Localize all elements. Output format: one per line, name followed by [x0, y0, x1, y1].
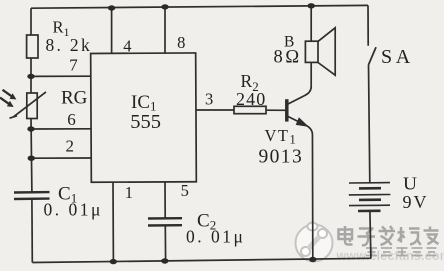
- svg-text:7: 7: [69, 55, 78, 74]
- svg-text:U: U: [403, 174, 417, 194]
- svg-text:0. 01μ: 0. 01μ: [186, 227, 245, 247]
- svg-text:8. 2k: 8. 2k: [46, 35, 93, 55]
- svg-text:0. 01μ: 0. 01μ: [44, 200, 103, 220]
- svg-text:5: 5: [181, 181, 189, 200]
- svg-text:6: 6: [67, 110, 76, 129]
- svg-text:2: 2: [66, 136, 75, 155]
- svg-text:8Ω: 8Ω: [274, 48, 302, 68]
- svg-text:9013: 9013: [259, 146, 304, 167]
- svg-text:1: 1: [125, 183, 133, 202]
- svg-text:RG: RG: [61, 88, 88, 109]
- svg-text:555: 555: [130, 111, 161, 133]
- svg-text:3: 3: [205, 90, 213, 109]
- svg-text:9V: 9V: [403, 192, 429, 212]
- svg-text:8: 8: [177, 33, 185, 52]
- svg-text:240: 240: [236, 89, 266, 109]
- svg-text:SA: SA: [381, 46, 414, 68]
- svg-text:4: 4: [123, 36, 131, 55]
